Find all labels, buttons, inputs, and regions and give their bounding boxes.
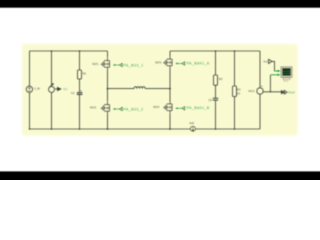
svg-text:R2: R2	[219, 77, 223, 81]
svg-text:PA_B841_B: PA_B841_B	[187, 106, 210, 110]
svg-text:Isd1: Isd1	[189, 121, 194, 125]
svg-text:PA_B33_2: PA_B33_2	[123, 107, 143, 111]
svg-text:C2: C2	[208, 98, 212, 102]
svg-text:SC1: SC1	[284, 80, 289, 83]
svg-text:R1: R1	[83, 72, 87, 76]
svg-text:V_IN: V_IN	[34, 88, 40, 91]
svg-text:FET4: FET4	[153, 106, 160, 109]
svg-text:FET1: FET1	[92, 63, 99, 66]
svg-text:FET3: FET3	[155, 61, 162, 64]
svg-text:10: 10	[237, 92, 241, 96]
svg-text:VAC1: VAC1	[248, 90, 255, 93]
svg-text:PA_B841_A: PA_B841_A	[187, 62, 210, 66]
svg-text:IL1: IL1	[63, 87, 68, 91]
svg-text:Vo1: Vo1	[263, 59, 268, 63]
svg-text:PA_B33_1: PA_B33_1	[123, 64, 143, 68]
svg-text:FET2: FET2	[90, 107, 97, 110]
svg-text:Vout: Vout	[288, 90, 295, 94]
svg-text:C1: C1	[71, 91, 75, 95]
